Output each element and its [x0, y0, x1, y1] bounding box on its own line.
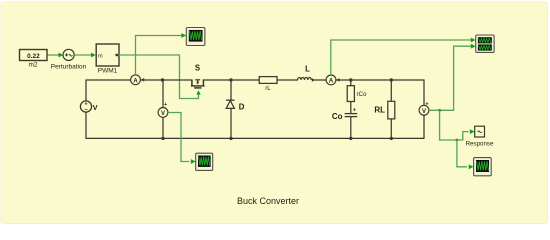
svg-text:L: L	[305, 65, 310, 74]
wire rCo to Co	[350, 102, 352, 114]
svg-text:m: m	[98, 54, 103, 60]
arrow into scope3	[191, 159, 196, 164]
node input voltmeter tap	[161, 78, 164, 81]
rail node diode	[229, 137, 232, 140]
svg-text:S: S	[195, 64, 200, 73]
response block	[475, 126, 485, 137]
top wire A1 to switch	[141, 79, 192, 81]
resistor rL	[259, 77, 277, 84]
svg-text:+: +	[164, 102, 167, 108]
measurement wire V2 to scope2	[429, 46, 471, 110]
arrow after A2	[336, 78, 339, 82]
svg-text:V: V	[422, 109, 426, 115]
ammeter A1	[131, 75, 141, 85]
svg-text:rL: rL	[265, 85, 271, 92]
measurement wire V1 to scope3	[168, 113, 190, 162]
wire source bottom	[85, 112, 87, 138]
node RL tap	[390, 78, 393, 81]
RL branch wire top	[390, 80, 392, 101]
measurement wire A1 to scope1	[136, 36, 182, 75]
constant block m2 value 0.22	[20, 50, 48, 61]
svg-text:A: A	[133, 78, 138, 84]
svg-text:Buck Converter: Buck Converter	[237, 196, 299, 206]
rail node Co	[349, 137, 352, 140]
inductor L	[298, 77, 316, 81]
diode branch wire top	[230, 80, 232, 100]
top wire A2 to output corner	[336, 79, 425, 81]
svg-text:Response: Response	[466, 141, 494, 148]
RL branch wire bottom	[390, 119, 392, 138]
diode branch wire bottom	[230, 108, 232, 138]
arrow into perturbation	[59, 53, 64, 58]
wire tee down to scope4	[457, 140, 467, 167]
node diode tap	[229, 78, 232, 81]
ammeter A2	[326, 75, 336, 85]
svg-text:+: +	[353, 108, 356, 114]
svg-text:V: V	[161, 111, 165, 117]
resistor RL	[388, 101, 395, 119]
arrow into gate	[196, 90, 200, 94]
wire rL to L	[277, 79, 298, 81]
resistor rCo	[347, 86, 354, 102]
arrow into scope2 input2	[471, 44, 476, 49]
svg-text:V: V	[93, 103, 98, 112]
svg-text:PWM1: PWM1	[98, 68, 118, 75]
svg-text:RL: RL	[374, 106, 385, 115]
scope3	[196, 153, 213, 170]
PWM modulator block PWM1	[96, 44, 119, 66]
scope4	[474, 158, 492, 176]
gate drive wire PWM1 to switch S	[119, 55, 199, 99]
mosfet S	[191, 79, 205, 88]
wire L to A2	[315, 79, 327, 81]
svg-text:Co: Co	[332, 112, 343, 121]
scope2	[476, 35, 494, 52]
svg-text:0.22: 0.22	[27, 53, 40, 60]
summing source Perturbation	[63, 49, 74, 60]
arrow into response	[470, 129, 475, 134]
svg-text:A: A	[329, 78, 334, 84]
wire perturbation to PWM1	[74, 54, 91, 56]
svg-text:+: +	[425, 102, 428, 108]
rCo branch wire	[350, 80, 352, 86]
wire source top	[85, 80, 87, 101]
svg-text:m2: m2	[28, 62, 37, 69]
wire V2 to rail	[423, 115, 425, 138]
wire Co to rail	[350, 117, 352, 139]
top wire switch to rL	[203, 79, 259, 81]
measurement wire A2 to scope2	[331, 40, 471, 75]
svg-text:rCo: rCo	[357, 91, 368, 98]
voltmeter V2	[419, 105, 429, 115]
arrow into PWM1	[91, 53, 96, 58]
arrow into scope2 input1	[471, 38, 476, 43]
arrow after A1	[141, 78, 144, 82]
voltmeter V1	[158, 108, 168, 118]
rail node V1	[161, 137, 164, 140]
top wire left section	[86, 79, 131, 81]
diode D	[226, 100, 235, 108]
output corner wire down to V2	[423, 80, 425, 106]
scope1	[186, 28, 205, 46]
rail node RL	[390, 137, 393, 140]
svg-text:Perturbation: Perturbation	[51, 63, 87, 70]
capacitor Co	[345, 114, 358, 117]
node rCo tap	[349, 78, 352, 81]
input source V	[80, 101, 91, 114]
node V2 measurement tee	[438, 109, 441, 112]
arrow into scope1	[181, 33, 186, 38]
voltmeter V1 branch wire	[162, 80, 164, 138]
node response tee	[456, 139, 459, 142]
wire constant to perturbation	[48, 54, 60, 56]
arrow into scope4	[469, 164, 474, 169]
measurement wire V2 to response and scope4	[440, 110, 469, 140]
svg-text:D: D	[239, 102, 245, 111]
bottom rail	[86, 137, 425, 139]
